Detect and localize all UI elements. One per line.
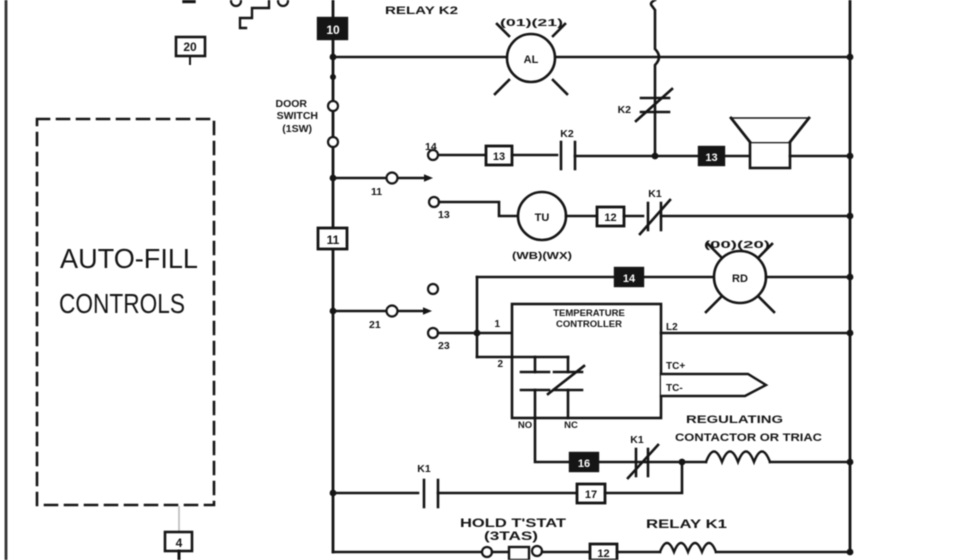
dashed enclosure AUTO-FILL CONTROLS xyxy=(37,119,214,505)
wire from contact 13 to timer xyxy=(439,202,518,216)
wire xyxy=(770,461,850,464)
wire (faint lead from dashed box to terminal 4) xyxy=(178,507,180,533)
svg-text:(3TAS): (3TAS) xyxy=(484,531,538,543)
node (junction before coil) xyxy=(679,459,686,466)
contact K2 (NC, vertical) xyxy=(618,89,672,121)
svg-text:20: 20 xyxy=(183,40,197,54)
temperature probe TC+/TC- xyxy=(661,361,766,396)
svg-text:RELAY K2: RELAY K2 xyxy=(385,5,458,17)
wire xyxy=(646,461,706,464)
node (right bus junction timer row) xyxy=(847,213,854,220)
svg-text:K2: K2 xyxy=(560,128,574,140)
hold thermostat 3TAS xyxy=(460,518,590,560)
svg-text:RD: RD xyxy=(732,273,748,285)
pilot lamp RD xyxy=(704,239,774,312)
coil (regulating contactor) xyxy=(706,452,770,463)
wire xyxy=(438,492,577,495)
main bus (left vertical rail) xyxy=(332,0,335,552)
wire xyxy=(724,155,750,158)
wire label box 16 (black) xyxy=(570,453,598,471)
wire xyxy=(643,276,714,279)
wire xyxy=(512,154,557,157)
svg-text:17: 17 xyxy=(585,489,597,501)
svg-text:RELAY K1: RELAY K1 xyxy=(646,519,728,531)
wire (stub at very top left of bus area) xyxy=(184,0,194,3)
svg-text:4: 4 xyxy=(176,536,183,550)
selector switch 21 (arm with contacts /23) xyxy=(333,284,450,352)
svg-text:L2: L2 xyxy=(666,322,678,333)
svg-text:NC: NC xyxy=(564,420,578,431)
svg-text:SWITCH: SWITCH xyxy=(277,110,318,122)
temperature controller U1 xyxy=(512,304,661,418)
wire label box (bottom, cut) xyxy=(590,544,617,560)
wire bottom rail xyxy=(333,551,482,554)
svg-text:K1: K1 xyxy=(417,463,431,475)
wire L2 to right bus xyxy=(661,332,850,335)
contact K1 (NO) xyxy=(417,463,438,507)
node (bus junction K1 contact row) xyxy=(330,490,337,497)
svg-text:DOOR: DOOR xyxy=(276,98,308,110)
node (junction of K2 branch with speaker row) xyxy=(652,153,659,160)
svg-text:12: 12 xyxy=(604,212,616,224)
alarm AL xyxy=(495,18,567,94)
svg-text:AL: AL xyxy=(524,54,539,66)
svg-text:2: 2 xyxy=(497,359,503,370)
wire row 14 xyxy=(439,154,486,157)
wire row 4 (pilot lamp row) xyxy=(477,276,615,279)
wire xyxy=(598,461,646,464)
svg-text:14: 14 xyxy=(425,141,437,153)
node (bus junction row 1) xyxy=(330,54,337,61)
wire to controller pin 2 xyxy=(477,356,512,359)
svg-text:16: 16 xyxy=(578,458,590,470)
wire label box 20 xyxy=(176,37,205,64)
node (junction on pin 1 wire) xyxy=(474,330,481,337)
contact K1 (NC) xyxy=(640,188,670,234)
door switch 1SW on bus xyxy=(276,98,339,147)
svg-text:(WB)(WX): (WB)(WX) xyxy=(512,250,572,262)
relay coil K1 xyxy=(646,519,728,552)
wire xyxy=(661,215,850,218)
right bus (right vertical rail) xyxy=(849,0,852,552)
wire xyxy=(766,276,850,279)
wire xyxy=(790,155,850,158)
wire label box 14 (black) xyxy=(615,268,643,286)
svg-text:K2: K2 xyxy=(618,104,632,116)
svg-text:CONTROLS: CONTROLS xyxy=(59,288,185,319)
node (right bus junction speaker row) xyxy=(847,153,854,160)
wire label box 12 xyxy=(597,207,624,226)
node (right bus junction lamp row) xyxy=(847,274,854,281)
wire label box 10 (black) xyxy=(318,18,347,39)
contact NC (internal, with slash) xyxy=(548,357,584,431)
wire label box 4 xyxy=(165,532,192,560)
wire xyxy=(716,551,850,554)
wire (mid vertical with hop over row 1) xyxy=(651,0,659,156)
wire label box 17 xyxy=(577,484,605,503)
svg-text:TC-: TC- xyxy=(666,383,683,394)
wire xyxy=(566,215,597,218)
svg-text:13: 13 xyxy=(493,151,505,163)
wire NO pin down to triac row xyxy=(535,418,570,462)
wire xyxy=(333,492,418,495)
svg-text:CONTACTOR OR TRIAC: CONTACTOR OR TRIAC xyxy=(675,432,822,444)
svg-text:NO: NO xyxy=(518,420,532,431)
float switch (cut off at top) xyxy=(240,1,269,28)
contact NO (internal) xyxy=(518,357,549,431)
svg-text:12: 12 xyxy=(597,548,609,560)
svg-text:21: 21 xyxy=(369,319,381,331)
wire xyxy=(575,155,700,158)
svg-text:(1SW): (1SW) xyxy=(282,123,312,135)
wire up to triac junction xyxy=(605,462,682,493)
node (bottom right corner) xyxy=(847,549,854,556)
contact K2 (NO) xyxy=(560,128,575,169)
svg-text:(01)(21): (01)(21) xyxy=(500,18,563,29)
svg-text:11: 11 xyxy=(371,186,382,198)
selector switch 11 (arm with contacts 14/13) xyxy=(333,141,450,221)
svg-text:HOLD T'STAT: HOLD T'STAT xyxy=(460,518,566,530)
left page border xyxy=(5,0,8,560)
svg-text:CONTROLLER: CONTROLLER xyxy=(556,319,622,330)
terminal circle (cut) xyxy=(278,0,288,6)
wire xyxy=(617,551,660,554)
svg-text:23: 23 xyxy=(438,340,450,352)
svg-text:11: 11 xyxy=(327,233,340,247)
svg-text:TU: TU xyxy=(535,212,550,224)
node (bus junction selector 21 row) xyxy=(330,308,337,315)
wire label box 13 xyxy=(486,146,512,165)
terminal circle (cut) xyxy=(231,0,241,6)
svg-text:TC+: TC+ xyxy=(666,361,685,372)
svg-text:K1: K1 xyxy=(630,434,644,446)
svg-text:AUTO-FILL: AUTO-FILL xyxy=(60,243,198,274)
wire row 1 (alarm row) xyxy=(333,56,507,59)
node (extra dot on bus) xyxy=(330,74,336,80)
node (bus junction row 2) xyxy=(330,175,337,182)
svg-text:14: 14 xyxy=(623,273,636,285)
speaker xyxy=(731,118,809,168)
node (right bus junction row 1) xyxy=(847,54,854,61)
wire (branch down from lamp row to controller pins) xyxy=(476,277,479,357)
svg-text:10: 10 xyxy=(326,23,340,37)
wire contact 23 to controller pin 1 xyxy=(438,332,512,335)
svg-text:REGULATING: REGULATING xyxy=(686,414,783,426)
timer TU xyxy=(512,192,572,262)
wire label box 13 (black) xyxy=(699,147,724,165)
wire xyxy=(624,215,643,218)
node (right bus junction triac row) xyxy=(847,459,854,466)
wire label box 11 on bus xyxy=(318,228,347,249)
node (right bus junction L2) xyxy=(847,330,854,337)
svg-text:1: 1 xyxy=(494,319,500,330)
wire (internal rail from pin 2) xyxy=(512,356,568,359)
svg-text:TEMPERATURE: TEMPERATURE xyxy=(553,308,625,319)
svg-text:13: 13 xyxy=(438,209,450,221)
svg-text:13: 13 xyxy=(705,152,717,164)
svg-text:K1: K1 xyxy=(648,188,662,200)
contact K1 (NC) xyxy=(628,434,658,478)
